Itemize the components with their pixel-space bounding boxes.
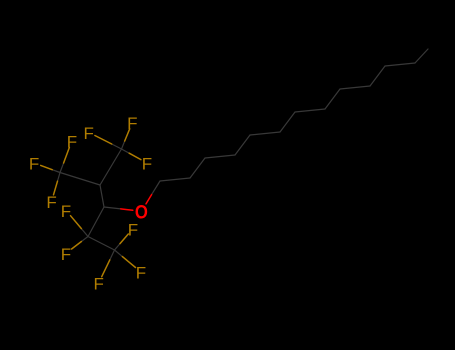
wire bond Ca-Cb	[160, 178, 190, 181]
svg-text:F: F	[136, 264, 146, 283]
wire bond C4-C5	[88, 207, 104, 237]
wire bond Ch-Ci	[325, 89, 340, 109]
wire bond Ck-Cl	[385, 63, 415, 66]
wire bond C2-C3	[60, 173, 100, 186]
svg-text:O: O	[135, 202, 148, 223]
wire bond Cd-Ce	[235, 135, 250, 155]
svg-text:F: F	[127, 114, 137, 133]
wire bond Ce-Cf	[250, 132, 280, 135]
wire bond Cb-Cc	[190, 158, 205, 178]
svg-text:F: F	[29, 155, 39, 174]
svg-text:F: F	[61, 245, 71, 264]
bond C2-F5	[52, 170, 60, 173]
wire bond Cc-Cd	[205, 155, 235, 158]
wire bond Ci-Cj	[340, 86, 370, 89]
wire bond Cj-Ck	[370, 66, 385, 86]
wire bond C1-C3	[100, 149, 122, 185]
bond C1-F1	[112, 144, 122, 149]
wire bond Cg-Ch	[295, 109, 325, 112]
bond Ca-O	[152, 181, 160, 195]
svg-text:F: F	[46, 193, 56, 212]
wire bond Cf-Cg	[280, 112, 295, 132]
bond C1-F2	[122, 141, 125, 149]
bond C6-F11	[115, 244, 121, 250]
bond C1-F3	[122, 149, 130, 153]
bond C5-F7	[81, 229, 88, 237]
bond C2-F6	[58, 173, 61, 182]
bond C5-F8	[81, 237, 88, 242]
bond C6-F9	[110, 250, 115, 260]
bond C4-O	[104, 207, 121, 209]
wire bond C5-C6	[88, 237, 115, 251]
svg-text:F: F	[142, 155, 152, 174]
wire bond Cl-Cm	[415, 49, 428, 63]
svg-text:F: F	[67, 132, 77, 151]
wire bond C3-C4	[100, 185, 104, 207]
bond C6-F10	[115, 250, 123, 257]
svg-text:F: F	[84, 124, 94, 143]
svg-text:F: F	[94, 275, 104, 294]
atom O (oxygen)	[135, 202, 148, 223]
svg-text:F: F	[61, 202, 71, 221]
bond C2-F4	[60, 163, 64, 173]
svg-text:F: F	[128, 220, 138, 239]
